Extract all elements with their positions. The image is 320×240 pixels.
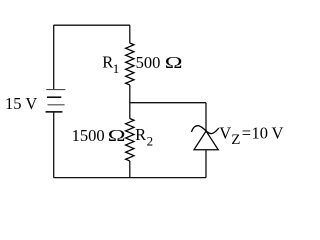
wire: middle rail (node to zener branch)	[130, 102, 206, 104]
svg-text:15 V: 15 V	[5, 94, 37, 113]
svg-text:Ω: Ω	[165, 55, 183, 73]
svg-text:10: 10	[252, 124, 269, 143]
svg-text:V: V	[219, 124, 231, 143]
svg-text:V: V	[272, 124, 284, 143]
svg-text:Z: Z	[231, 132, 240, 148]
wire: top rail	[54, 24, 131, 26]
wire: left vertical upper (battery to top rail)	[53, 25, 55, 89]
wire: R1 bottom lead to node	[129, 85, 131, 119]
zener diode D1 triangle (anode)	[194, 131, 218, 150]
svg-text:500: 500	[136, 53, 161, 72]
svg-text:2: 2	[147, 134, 154, 149]
svg-text:Ω: Ω	[108, 128, 126, 146]
svg-text:=: =	[242, 124, 251, 143]
wire: left vertical lower (battery to bottom rail)	[53, 112, 55, 178]
wire: right vertical upper (to zener cathode)	[205, 103, 207, 131]
resistor R1 zigzag	[126, 43, 134, 85]
wire: R2 bottom lead	[129, 161, 131, 178]
wire: right vertical lower (zener anode to bottom rail)	[205, 150, 207, 178]
battery B1 plate short - (bottom)	[46, 111, 63, 113]
battery B1 plate short -	[47, 96, 61, 98]
svg-text:R: R	[135, 125, 146, 144]
battery B1 plate long + (top)	[46, 89, 65, 91]
battery B1 plate long +	[48, 104, 65, 106]
wire: bottom rail	[54, 177, 207, 179]
svg-text:1: 1	[113, 61, 120, 76]
wire: R1 top lead	[129, 25, 131, 43]
svg-text:1500: 1500	[72, 126, 105, 145]
svg-text:R: R	[102, 53, 113, 72]
zener diode D1 cathode curved bar	[192, 126, 219, 134]
resistor R2 zigzag	[126, 119, 134, 162]
